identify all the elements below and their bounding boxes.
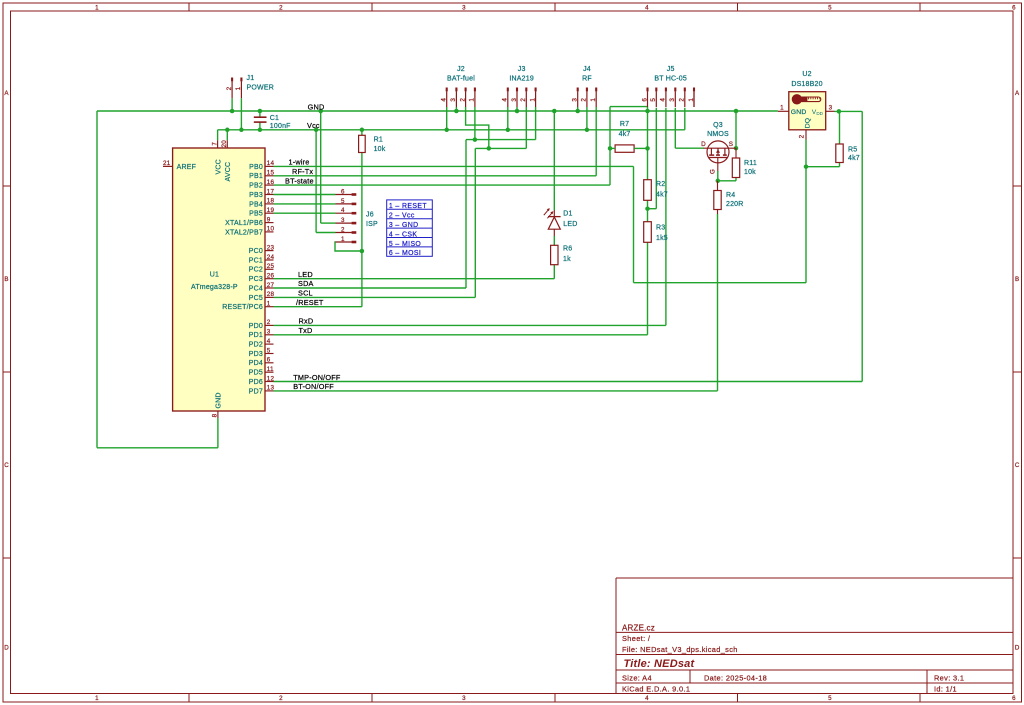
svg-text:ARZE.cz: ARZE.cz <box>622 624 655 633</box>
svg-text:R7: R7 <box>620 121 629 128</box>
svg-text:1: 1 <box>688 98 695 102</box>
svg-text:TxD: TxD <box>299 326 313 335</box>
svg-text:Title: NEDsat: Title: NEDsat <box>624 658 696 670</box>
svg-text:2: 2 <box>799 134 806 138</box>
svg-text:19: 19 <box>267 207 275 214</box>
svg-text:1: 1 <box>529 98 536 102</box>
svg-text:1: 1 <box>780 105 784 112</box>
svg-text:J1: J1 <box>247 75 255 82</box>
svg-text:Vcc: Vcc <box>307 121 320 130</box>
svg-text:4k7: 4k7 <box>619 131 631 138</box>
svg-text:1: 1 <box>95 695 99 702</box>
svg-text:J4: J4 <box>583 66 591 73</box>
svg-text:ATmega328-P: ATmega328-P <box>191 284 238 291</box>
svg-text:1: 1 <box>590 98 597 102</box>
svg-text:PB3: PB3 <box>249 192 263 199</box>
svg-text:R2: R2 <box>656 181 665 188</box>
svg-text:Id: 1/1: Id: 1/1 <box>934 684 957 693</box>
svg-text:6 – MOSI: 6 – MOSI <box>389 250 421 257</box>
svg-text:D: D <box>701 141 706 148</box>
svg-text:LED: LED <box>563 221 577 228</box>
svg-text:AVCC: AVCC <box>225 162 232 182</box>
svg-text:C: C <box>1015 462 1020 469</box>
svg-text:BT HC-05: BT HC-05 <box>654 75 687 82</box>
svg-text:BAT-fuel: BAT-fuel <box>447 75 475 82</box>
svg-text:U2: U2 <box>802 71 811 78</box>
svg-text:5: 5 <box>341 198 345 205</box>
svg-text:A: A <box>4 90 9 97</box>
svg-text:GND: GND <box>216 392 223 408</box>
svg-text:3: 3 <box>669 98 676 102</box>
svg-text:2: 2 <box>581 98 588 102</box>
svg-text:PB4: PB4 <box>249 201 263 208</box>
svg-text:KiCad E.D.A. 9.0.1: KiCad E.D.A. 9.0.1 <box>622 684 690 693</box>
svg-text:3: 3 <box>450 98 457 102</box>
svg-text:5: 5 <box>828 695 832 702</box>
svg-text:28: 28 <box>267 291 275 298</box>
svg-text:PB0: PB0 <box>249 164 263 171</box>
svg-text:4: 4 <box>502 98 509 102</box>
svg-text:1: 1 <box>95 4 99 11</box>
svg-text:3: 3 <box>462 695 466 702</box>
svg-text:R5: R5 <box>848 147 857 154</box>
svg-text:GND: GND <box>791 109 807 116</box>
svg-text:5: 5 <box>267 347 271 354</box>
svg-text:Q3: Q3 <box>713 122 723 129</box>
svg-text:NMOS: NMOS <box>707 131 729 138</box>
svg-text:J5: J5 <box>667 66 675 73</box>
svg-text:5: 5 <box>828 4 832 11</box>
svg-text:XTAL2/PB7: XTAL2/PB7 <box>225 229 263 236</box>
svg-text:PB1: PB1 <box>249 173 263 180</box>
svg-text:4: 4 <box>645 695 649 702</box>
svg-text:12: 12 <box>267 375 275 382</box>
svg-text:4: 4 <box>341 207 345 214</box>
svg-text:Size: A4: Size: A4 <box>622 674 652 683</box>
svg-text:26: 26 <box>267 273 275 280</box>
svg-text:PB2: PB2 <box>249 183 263 190</box>
svg-text:D1: D1 <box>563 211 572 218</box>
svg-text:9: 9 <box>267 216 271 223</box>
svg-text:GND: GND <box>308 102 325 111</box>
svg-text:PD1: PD1 <box>249 332 263 339</box>
svg-text:SCL: SCL <box>298 289 313 298</box>
svg-text:J3: J3 <box>518 66 526 73</box>
svg-text:RF-Tx: RF-Tx <box>292 167 313 176</box>
svg-text:RF: RF <box>582 75 592 82</box>
svg-text:R4: R4 <box>726 192 735 199</box>
svg-text:7: 7 <box>212 142 219 146</box>
svg-text:3: 3 <box>829 105 833 112</box>
svg-text:24: 24 <box>267 254 275 261</box>
svg-text:R1: R1 <box>374 136 383 143</box>
svg-text:PD4: PD4 <box>249 360 263 367</box>
svg-text:A: A <box>1015 90 1020 97</box>
svg-text:D: D <box>1015 645 1020 652</box>
svg-text:2: 2 <box>279 695 283 702</box>
svg-text:2: 2 <box>279 4 283 11</box>
svg-text:BT-ON/OFF: BT-ON/OFF <box>293 382 334 391</box>
svg-text:15: 15 <box>267 170 275 177</box>
svg-text:U1: U1 <box>210 272 219 279</box>
svg-text:R11: R11 <box>744 160 757 167</box>
svg-text:1-wire: 1-wire <box>289 158 310 167</box>
svg-text:2: 2 <box>679 98 686 102</box>
svg-text:6: 6 <box>1012 4 1016 11</box>
svg-text:J6: J6 <box>366 212 374 219</box>
svg-text:PC2: PC2 <box>249 267 263 274</box>
svg-text:3: 3 <box>267 329 271 336</box>
svg-text:J2: J2 <box>457 66 465 73</box>
svg-text:C1: C1 <box>270 115 279 122</box>
svg-text:PB5: PB5 <box>249 211 263 218</box>
svg-text:R6: R6 <box>563 246 572 253</box>
svg-text:SDA: SDA <box>298 279 314 288</box>
svg-text:5: 5 <box>650 98 657 102</box>
svg-text:DQ: DQ <box>804 118 811 129</box>
svg-text:/RESET: /RESET <box>296 298 324 307</box>
svg-text:4 – CSK: 4 – CSK <box>389 231 417 238</box>
svg-text:TMP-ON/OFF: TMP-ON/OFF <box>293 373 341 382</box>
svg-text:25: 25 <box>267 263 275 270</box>
svg-text:4: 4 <box>645 4 649 11</box>
svg-text:ISP: ISP <box>366 221 378 228</box>
svg-text:INA219: INA219 <box>509 75 534 82</box>
svg-text:4: 4 <box>660 98 667 102</box>
svg-text:2 – Vcc: 2 – Vcc <box>389 213 415 220</box>
svg-text:20: 20 <box>221 140 228 148</box>
svg-text:B: B <box>1015 276 1019 283</box>
svg-text:POWER: POWER <box>247 85 274 92</box>
svg-text:PC0: PC0 <box>249 248 263 255</box>
svg-text:11: 11 <box>267 366 274 373</box>
svg-text:Sheet: /: Sheet: / <box>622 634 651 643</box>
svg-text:17: 17 <box>267 188 275 195</box>
svg-text:4k7: 4k7 <box>656 192 668 199</box>
svg-text:4: 4 <box>267 338 271 345</box>
svg-text:3 – GND: 3 – GND <box>389 222 419 229</box>
svg-text:1k: 1k <box>563 256 571 263</box>
svg-text:1: 1 <box>267 301 271 308</box>
svg-text:BT-state: BT-state <box>285 176 314 185</box>
svg-text:1 – RESET: 1 – RESET <box>389 203 427 210</box>
svg-text:220R: 220R <box>726 201 744 208</box>
svg-text:3: 3 <box>341 217 345 224</box>
svg-text:4: 4 <box>441 98 448 102</box>
svg-text:RESET/PC6: RESET/PC6 <box>222 304 263 311</box>
svg-text:10k: 10k <box>744 169 756 176</box>
svg-text:5 – MISO: 5 – MISO <box>389 241 422 248</box>
svg-text:XTAL1/PB6: XTAL1/PB6 <box>225 220 263 227</box>
svg-text:6: 6 <box>341 189 345 196</box>
svg-text:PC1: PC1 <box>249 257 263 264</box>
svg-text:Rev: 3.1: Rev: 3.1 <box>934 674 964 683</box>
svg-text:D: D <box>4 645 9 652</box>
svg-text:2: 2 <box>520 98 527 102</box>
svg-text:6: 6 <box>641 98 648 102</box>
svg-text:3: 3 <box>511 98 518 102</box>
svg-text:3: 3 <box>572 98 579 102</box>
svg-text:1: 1 <box>235 86 242 90</box>
svg-text:PD7: PD7 <box>249 388 263 395</box>
svg-text:File: NEDsat_V3_dps.kicad_sch: File: NEDsat_V3_dps.kicad_sch <box>622 645 738 654</box>
svg-text:10: 10 <box>267 226 275 233</box>
svg-text:S: S <box>729 141 733 148</box>
svg-text:RxD: RxD <box>299 317 314 326</box>
svg-text:13: 13 <box>267 385 275 392</box>
svg-text:10k: 10k <box>374 146 386 153</box>
svg-text:14: 14 <box>267 160 275 167</box>
svg-text:1k5: 1k5 <box>656 235 668 242</box>
svg-text:PD5: PD5 <box>249 370 263 377</box>
svg-text:PC3: PC3 <box>249 276 263 283</box>
svg-text:8: 8 <box>212 413 219 417</box>
svg-text:27: 27 <box>267 282 275 289</box>
svg-text:4k7: 4k7 <box>848 155 860 162</box>
svg-text:AREF: AREF <box>177 164 196 171</box>
svg-text:DS18B20: DS18B20 <box>791 81 822 88</box>
svg-text:2: 2 <box>341 227 345 234</box>
svg-text:23: 23 <box>267 244 275 251</box>
svg-text:PD2: PD2 <box>249 342 263 349</box>
svg-text:1: 1 <box>469 98 476 102</box>
svg-text:PD6: PD6 <box>249 379 263 386</box>
svg-text:1: 1 <box>341 236 345 243</box>
svg-text:2: 2 <box>226 86 233 90</box>
svg-text:B: B <box>4 276 8 283</box>
svg-text:LED: LED <box>298 270 313 279</box>
svg-text:C: C <box>4 462 9 469</box>
svg-text:6: 6 <box>1012 695 1016 702</box>
svg-text:16: 16 <box>267 179 275 186</box>
svg-text:18: 18 <box>267 198 275 205</box>
svg-text:G: G <box>709 169 716 174</box>
svg-text:2: 2 <box>267 319 271 326</box>
svg-text:100nF: 100nF <box>270 123 291 130</box>
svg-text:PD3: PD3 <box>249 351 263 358</box>
svg-text:21: 21 <box>163 160 171 167</box>
svg-text:R3: R3 <box>656 225 665 232</box>
svg-text:PC5: PC5 <box>249 295 263 302</box>
svg-text:2: 2 <box>459 98 466 102</box>
svg-text:VCC: VCC <box>215 159 222 174</box>
svg-text:PD0: PD0 <box>249 323 263 330</box>
svg-text:6: 6 <box>267 357 271 364</box>
svg-text:3: 3 <box>462 4 466 11</box>
svg-text:PC4: PC4 <box>249 285 263 292</box>
svg-text:Date: 2025-04-18: Date: 2025-04-18 <box>704 674 767 683</box>
